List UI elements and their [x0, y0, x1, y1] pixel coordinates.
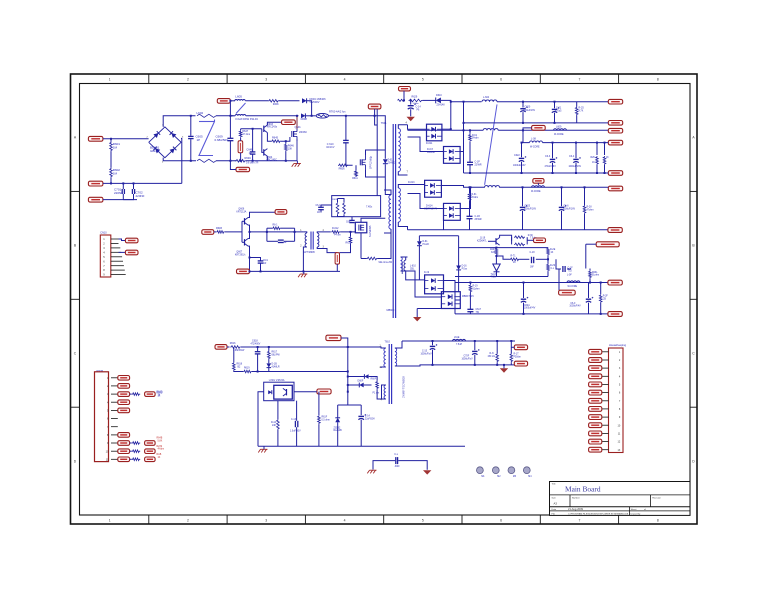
resistor R619b	[243, 370, 252, 373]
wire U604 to P646	[294, 391, 317, 393]
svg-text:C618: C618	[252, 340, 258, 343]
svg-text:1.0uF/50V: 1.0uF/50V	[290, 431, 301, 433]
junction	[604, 142, 606, 144]
junction	[302, 270, 304, 272]
wire gnd stem2	[303, 271, 305, 274]
svg-text:7: 7	[407, 171, 409, 174]
svg-text:Number: Number	[572, 496, 580, 499]
wire C646 up	[252, 129, 254, 152]
svg-text:1.6M/5%W: 1.6M/5%W	[233, 350, 245, 352]
wire C649 link	[250, 258, 261, 261]
wire R61F down	[318, 424, 320, 446]
svg-text:8: 8	[619, 408, 621, 411]
wire base q606	[242, 220, 245, 222]
frame ruler ticks	[148, 74, 150, 84]
wire T602 s bot	[317, 247, 337, 253]
capacitor C618s	[531, 257, 533, 263]
wire D622 right	[364, 384, 372, 386]
capacitor C625	[520, 206, 525, 208]
wire T603 s2	[395, 365, 408, 367]
svg-text:C-1P: C-1P	[475, 162, 481, 164]
svg-text:R-30: R-30	[528, 235, 534, 237]
wire R625 v2	[576, 116, 578, 123]
svg-text:K26: K26	[491, 252, 496, 254]
wire R620 down	[495, 256, 497, 265]
transformer T601 primary feed	[377, 116, 385, 159]
junction	[229, 115, 231, 117]
wire rail11	[455, 313, 608, 315]
wire R613 v	[350, 232, 352, 236]
wire C621 v2	[554, 113, 556, 123]
wire C614 down	[360, 420, 362, 447]
wire C617 down	[469, 312, 471, 314]
svg-text:5%dm: 5%dm	[472, 197, 479, 199]
junction	[257, 346, 259, 348]
svg-text:R-2F: R-2F	[603, 295, 609, 297]
resistor R662	[469, 134, 472, 142]
diode D610	[436, 98, 441, 104]
svg-text:D-614: D-614	[426, 205, 433, 208]
resistor R618a	[216, 231, 225, 234]
connector P642	[145, 441, 156, 446]
svg-text:5: 5	[103, 255, 105, 259]
bridge diode D3	[153, 147, 160, 154]
junction	[240, 160, 242, 162]
wire R661 top	[469, 187, 471, 193]
junction	[547, 258, 549, 260]
diode package D619	[425, 275, 444, 294]
junction	[229, 160, 231, 162]
svg-text:10: 10	[618, 424, 621, 427]
bead L611	[567, 281, 580, 283]
svg-text:R-2E: R-2E	[550, 249, 556, 251]
transformer T601 sec winding 2	[398, 188, 400, 222]
wire P604 drop	[229, 101, 231, 116]
mounting hole M4	[523, 467, 530, 474]
svg-text:D: D	[74, 459, 77, 463]
wire R661-C641	[469, 201, 471, 216]
svg-text:R-25: R-25	[579, 107, 585, 110]
junction	[496, 340, 498, 342]
svg-text:R64D: R64D	[157, 392, 163, 394]
connector P602 (AC neutral)	[88, 181, 103, 186]
svg-text:1000uF/xV: 1000uF/xV	[462, 358, 474, 360]
mounting hole M1	[477, 467, 484, 474]
wire C615 v2	[432, 350, 434, 365]
wire bridge - down	[163, 158, 196, 161]
svg-text:B2: B2	[238, 366, 242, 368]
ground (sec)	[413, 317, 421, 321]
connector P615	[608, 171, 622, 176]
inductor L605 bottom winding	[235, 114, 245, 115]
wire C619s left	[556, 259, 561, 269]
choke L602 winding bottom	[197, 159, 216, 162]
svg-text:Q-19: Q-19	[480, 238, 486, 240]
junction	[552, 172, 554, 174]
wire R61F up	[318, 392, 320, 416]
svg-text:R618: R618	[237, 364, 243, 366]
resistor R616	[230, 346, 241, 349]
junction	[347, 346, 349, 348]
inductor L610	[404, 260, 406, 271]
wire rail1 out	[497, 101, 608, 103]
svg-text:1: 1	[619, 351, 621, 354]
diode package D611	[427, 124, 442, 141]
wire R662 top	[469, 130, 471, 134]
connector P632 (pwm row)	[118, 392, 130, 397]
wire T602 p2	[303, 247, 306, 271]
junction	[294, 231, 296, 233]
svg-text:T60J: T60J	[385, 341, 391, 344]
wire gnd sec	[416, 309, 418, 318]
svg-text:1K: 1K	[592, 162, 595, 164]
svg-text:CN10: CN10	[100, 232, 107, 235]
transistor Q606	[244, 218, 246, 224]
wire main rail to L605b	[230, 115, 235, 117]
svg-text:W-CORE: W-CORE	[531, 191, 541, 193]
svg-text:10K: 10K	[288, 147, 293, 150]
svg-text:7.5uH: 7.5uH	[456, 344, 462, 346]
svg-text:Q606: Q606	[238, 208, 245, 211]
resistor R622	[547, 248, 550, 256]
svg-text:2YWBF TEC/WBDB: 2YWBF TEC/WBDB	[402, 376, 405, 398]
junction	[469, 282, 471, 284]
wire rc bottom l	[267, 240, 278, 242]
wire rc left r	[267, 227, 272, 229]
wire C626 v2	[561, 211, 563, 230]
resistor R649	[235, 160, 246, 163]
svg-text:1000uF/4V: 1000uF/4V	[569, 306, 581, 308]
svg-text:C6-F: C6-F	[570, 303, 576, 305]
svg-text:D-611: D-611	[426, 142, 433, 145]
svg-text:Sheet: Sheet	[631, 508, 637, 511]
capacitor C620	[520, 108, 525, 110]
connector P634 (pwm row)	[118, 408, 130, 413]
svg-text:2K: 2K	[513, 262, 516, 264]
svg-text:R26: R26	[591, 157, 596, 159]
wire C641 down	[469, 219, 471, 230]
svg-text:W-CORE: W-CORE	[530, 147, 540, 149]
svg-text:Z-61: Z-61	[388, 159, 394, 162]
wire Q619 base	[488, 240, 496, 242]
transformer T601 sec winding 3	[401, 257, 403, 271]
connector P655 (hk row)	[589, 390, 602, 395]
connector P619	[608, 228, 622, 233]
connector P633 (pwm row)	[118, 400, 130, 405]
svg-text:D-19: D-19	[424, 272, 430, 274]
wire C623 v	[552, 143, 554, 159]
capacitor C626	[559, 206, 564, 208]
ground (primary)	[294, 163, 301, 165]
wire bottom rail gate	[250, 270, 341, 272]
connector P630 (pwm row)	[118, 376, 130, 381]
svg-text:24K: 24K	[272, 425, 277, 427]
wire C605 vertical	[190, 116, 192, 136]
wire P604 to L605	[230, 100, 235, 102]
wire stb gnd rail	[258, 445, 465, 447]
svg-text:Main Board: Main Board	[565, 485, 601, 494]
svg-text:M3: M3	[513, 476, 517, 478]
choke L604 winding3	[485, 186, 500, 188]
svg-text:C620: C620	[525, 106, 531, 109]
svg-text:4: 4	[406, 122, 408, 125]
wire R623 down	[547, 272, 549, 277]
wire P618 stub	[537, 183, 539, 185]
svg-text:2: 2	[187, 78, 189, 82]
junction	[432, 364, 434, 366]
wire stb rail in	[227, 346, 230, 348]
diode package D614	[444, 203, 461, 220]
connector P644	[145, 457, 156, 462]
inductor L610 core bar	[401, 262, 403, 274]
capacitor C62F	[586, 298, 591, 300]
svg-text:1R: 1R	[317, 212, 320, 214]
jumper J601 (vertical red box)	[238, 141, 243, 153]
junction	[285, 140, 287, 142]
capacitor C646	[250, 151, 256, 153]
svg-text:KZD647L: KZD647L	[477, 240, 487, 242]
junction	[584, 186, 586, 188]
svg-text:L-604: L-604	[483, 96, 490, 99]
svg-text:3: 3	[265, 519, 267, 523]
wire R to bases	[225, 231, 242, 233]
wire C609 up	[229, 116, 231, 139]
svg-text:9: 9	[619, 416, 621, 419]
wire R627 v2	[604, 165, 606, 173]
junction	[495, 247, 497, 249]
svg-text:470u5: 470u5	[555, 111, 562, 113]
wire rail2	[464, 122, 609, 124]
wire D608 to fuse	[306, 115, 316, 117]
svg-text:R-71: R-71	[511, 256, 517, 258]
bead L607	[532, 186, 545, 188]
svg-text:6: 6	[500, 78, 502, 82]
svg-text:D: D	[692, 459, 695, 463]
wire fuse to transformer	[329, 115, 378, 117]
svg-text:D-61: D-61	[423, 241, 429, 243]
wire rail6 out	[499, 186, 608, 188]
svg-text:L-08: L-08	[531, 138, 536, 141]
wire C620 v	[522, 102, 524, 108]
wire Rpair to P620	[527, 239, 533, 241]
svg-text:R619: R619	[244, 368, 250, 370]
svg-text:R645: R645	[272, 136, 279, 139]
wire R640 v2	[600, 303, 602, 314]
connector CN10	[100, 235, 111, 277]
resistor R638	[589, 270, 592, 278]
junction	[522, 186, 524, 188]
wire rail10	[455, 282, 608, 284]
wire gnd stem3	[263, 446, 265, 449]
svg-text:L-610: L-610	[410, 266, 417, 268]
svg-text:4148LR: 4148LR	[272, 366, 280, 368]
junction	[523, 282, 525, 284]
wire R647 to J601	[240, 138, 242, 141]
wire aux rail 371	[258, 371, 348, 373]
wire P607 down	[375, 109, 378, 125]
connector P625	[608, 312, 622, 317]
svg-text:1K: 1K	[606, 157, 609, 159]
junction	[190, 160, 192, 162]
svg-text:47 4ms: 47 4ms	[242, 133, 251, 136]
svg-text:5: 5	[422, 78, 424, 82]
wire cap2 top	[133, 183, 135, 189]
connector P606	[282, 120, 296, 125]
wire D615 down	[418, 246, 420, 280]
svg-text:ZS4822: ZS4822	[388, 162, 397, 164]
svg-text:22/WR: 22/WR	[475, 164, 482, 166]
wire rail9	[408, 229, 608, 231]
wire Q605 drain	[361, 218, 385, 222]
connector P610	[399, 87, 411, 91]
svg-text:R6-1: R6-1	[273, 224, 279, 226]
wire R642 v	[510, 341, 512, 353]
wire rail3 in	[408, 129, 484, 131]
wire rc left	[266, 228, 268, 241]
wire sn left	[348, 376, 365, 378]
wire stb vert1	[347, 347, 349, 392]
junction	[266, 231, 268, 233]
svg-text:4: 4	[619, 375, 621, 378]
resistor R643	[376, 381, 379, 389]
wire R pair top	[337, 199, 339, 203]
svg-text:5.8K: 5.8K	[158, 440, 163, 442]
svg-text:ZS4148: ZS4148	[437, 104, 446, 106]
wire stub sn	[369, 377, 377, 381]
wire stb gnd stub	[503, 365, 505, 368]
junction	[249, 270, 251, 272]
junction	[474, 364, 476, 366]
svg-text:4%dm: 4%dm	[158, 449, 165, 451]
wire C605 vertical lower	[190, 139, 192, 161]
title block	[550, 482, 691, 516]
wire P648 stub	[511, 346, 514, 348]
svg-text:D-6 8: D-6 8	[427, 148, 434, 151]
wire rail to P605	[230, 161, 236, 170]
svg-text:2: 2	[147, 137, 149, 139]
fuse F601	[316, 114, 328, 119]
svg-text:A: A	[692, 136, 695, 140]
svg-text:Q607: Q607	[236, 251, 243, 254]
resistor R629	[409, 99, 423, 102]
wire D622 left	[348, 384, 360, 386]
connector P626	[125, 238, 138, 243]
transformer T603 core	[388, 344, 390, 404]
resistor R637	[514, 243, 525, 246]
wire D614 out	[460, 187, 470, 208]
wire D611 out	[442, 128, 451, 130]
svg-text:M1: M1	[481, 476, 485, 478]
resistor R647	[239, 130, 242, 138]
svg-text:0.5 ohm: 0.5 ohm	[322, 419, 330, 421]
wire pwm r3	[130, 393, 132, 395]
junction	[469, 186, 471, 188]
resistor R602	[110, 168, 113, 178]
wire C650 down	[320, 210, 322, 213]
wire C625 v2	[522, 211, 524, 230]
svg-text:R-61: R-61	[472, 135, 478, 137]
svg-text:PGxx: PGxx	[462, 268, 468, 270]
connector P612	[608, 121, 622, 126]
ground (standby)	[261, 448, 268, 450]
connector P638 (pwm row)	[118, 441, 130, 446]
svg-text:5: 5	[422, 519, 424, 523]
jumper J602 (vertical red box)	[335, 253, 339, 265]
resistor R613	[349, 236, 352, 244]
svg-text:L605: L605	[235, 95, 242, 99]
wire rail5	[464, 172, 609, 174]
svg-text:KRT29C/x: KRT29C/x	[235, 254, 246, 256]
connector P639 (pwm row)	[118, 449, 130, 454]
wire rc right r	[281, 227, 295, 229]
resistor R617	[268, 351, 271, 360]
svg-text:1K: 1K	[158, 457, 161, 459]
connector P606b	[275, 210, 287, 215]
capacitor C612	[408, 105, 414, 107]
wire D613 out	[441, 186, 484, 188]
wire C62A v	[523, 283, 525, 299]
wire D620 in	[408, 271, 442, 297]
svg-text:1000uF/4V: 1000uF/4V	[524, 307, 536, 309]
wire R644b down	[277, 430, 279, 446]
wire bridge + up	[163, 116, 195, 127]
wire emit node	[250, 231, 267, 233]
junction	[410, 99, 412, 101]
connector P609	[237, 269, 250, 274]
wire R646 bottom	[285, 152, 287, 161]
connector P621 (long)	[596, 242, 619, 247]
svg-text:220NF: 220NF	[136, 194, 145, 198]
wire R614 join	[361, 258, 367, 260]
wire fb bottom	[455, 276, 548, 278]
connector CN13 HouseKeeping	[609, 348, 624, 453]
resistor R640	[599, 294, 602, 303]
wire sec3 bottom	[401, 270, 408, 272]
junction	[561, 186, 563, 188]
resistor R612	[331, 231, 340, 234]
wire Q602 src	[366, 170, 386, 177]
svg-text:B: B	[74, 244, 77, 248]
svg-text:8: 8	[103, 268, 105, 272]
svg-text:92k-4ms-2W: 92k-4ms-2W	[379, 261, 393, 264]
svg-text:0.6u/fl DKW KW-04: 0.6u/fl DKW KW-04	[235, 117, 258, 121]
bridge diode D1	[153, 131, 160, 138]
diode D615	[417, 241, 422, 245]
junction	[600, 313, 602, 315]
capacitor C618b	[255, 351, 261, 353]
wire P621 stub	[586, 243, 596, 245]
resistor R621	[510, 258, 520, 261]
connector P648	[514, 345, 527, 350]
transformer T602 right winding	[317, 233, 319, 247]
capacitor C614	[358, 415, 364, 417]
svg-text:C-14: C-14	[365, 416, 371, 418]
capacitor C613	[294, 421, 296, 427]
svg-text:C6-3: C6-3	[545, 155, 551, 158]
bridge diode D2	[170, 131, 177, 138]
svg-text:220NF: 220NF	[114, 191, 123, 195]
junction	[285, 160, 287, 162]
wire t601 to D613	[408, 184, 425, 186]
svg-text:1M: 1M	[113, 146, 118, 150]
svg-text:RAB: RAB	[157, 453, 162, 456]
wire R619b right	[252, 354, 258, 372]
svg-text:C-21: C-21	[556, 106, 562, 109]
wire Q604 emit	[266, 156, 268, 161]
wire R629 to D610	[423, 99, 436, 101]
junction	[503, 364, 505, 366]
wire T603 p1	[377, 347, 386, 348]
